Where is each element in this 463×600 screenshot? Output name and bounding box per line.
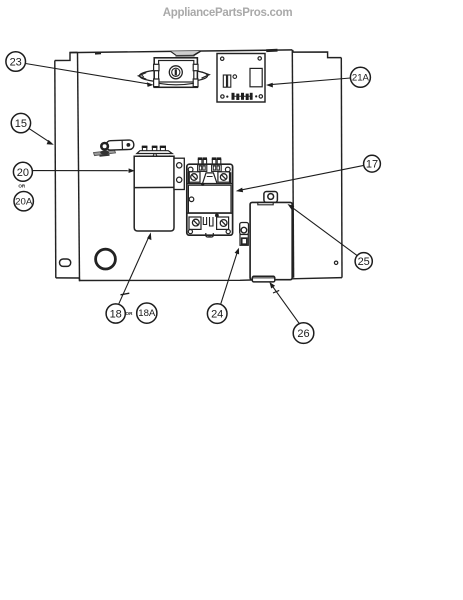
svg-text:18A: 18A	[138, 308, 156, 319]
svg-text:25: 25	[358, 256, 370, 268]
svg-text:21A: 21A	[352, 73, 370, 84]
svg-text:17: 17	[366, 158, 378, 170]
svg-text:15: 15	[15, 118, 27, 130]
svg-text:20: 20	[17, 167, 29, 179]
svg-text:OR: OR	[18, 183, 26, 188]
svg-text:20A: 20A	[15, 197, 33, 208]
svg-text:24: 24	[211, 308, 223, 320]
svg-text:23: 23	[10, 56, 22, 68]
svg-text:26: 26	[297, 328, 309, 340]
svg-text:OR: OR	[126, 311, 134, 316]
svg-text:18: 18	[110, 308, 122, 320]
